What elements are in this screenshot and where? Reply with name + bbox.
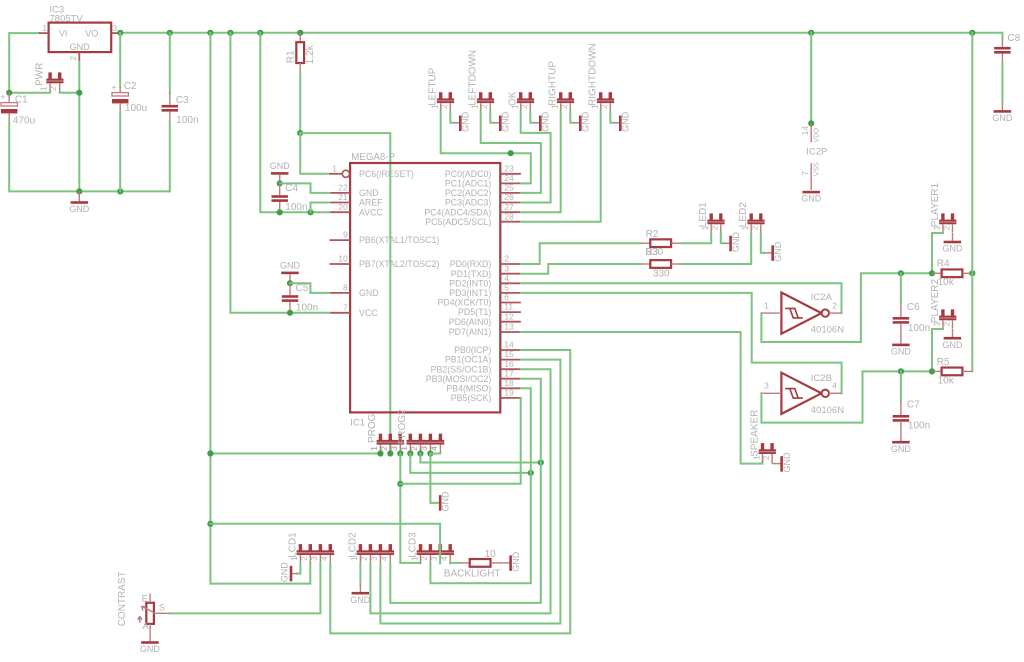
- svg-text:3: 3: [310, 556, 319, 561]
- wire VCC to IC1 pin7: [230, 33, 329, 313]
- ground symbol of PLAYER2: [952, 329, 954, 337]
- svg-text:PWR: PWR: [35, 63, 46, 86]
- svg-text:12: 12: [504, 311, 514, 321]
- svg-text:GND: GND: [69, 204, 90, 214]
- wire VCC top rail: [120, 32, 1002, 34]
- wire VCC to LCD3 pin3: [210, 524, 440, 564]
- wire AVCC net from VCC rail: [207, 30, 213, 36]
- ground symbol of PLAYER1: [952, 233, 954, 241]
- svg-text:PB4(MISO): PB4(MISO): [446, 383, 491, 393]
- wire IC3 pin2 down: [78, 62, 80, 192]
- svg-text:PC3(ADC3): PC3(ADC3): [445, 198, 492, 208]
- connector LCD1: [299, 544, 302, 551]
- svg-text:1: 1: [42, 23, 47, 33]
- svg-text:PROG: PROG: [367, 413, 378, 443]
- svg-text:4: 4: [320, 556, 329, 561]
- junction C4 top: [277, 180, 283, 186]
- pin 3 PD1(TXD) of IC1: [500, 273, 521, 275]
- svg-text:CONTRAST: CONTRAST: [117, 571, 128, 626]
- wire PD1 to R3: [521, 264, 641, 274]
- svg-text:PD4(XCK/T0): PD4(XCK/T0): [438, 298, 492, 308]
- svg-text:RIGHTUP: RIGHTUP: [548, 61, 559, 106]
- svg-text:PROG2: PROG2: [397, 409, 408, 444]
- pin 27 PC4(ADC4/SDA) of IC1: [500, 211, 521, 213]
- wire C5 top to IC1 pin8 GND: [290, 283, 330, 293]
- junction PROG2 pin2: [417, 450, 423, 456]
- svg-text:100n: 100n: [908, 421, 930, 432]
- ground symbol of C8: [994, 110, 1012, 113]
- connector LEFTDOWN: [479, 92, 482, 99]
- svg-text:470u: 470u: [13, 115, 35, 126]
- svg-text:PC4(ADC4/SDA): PC4(ADC4/SDA): [424, 207, 491, 217]
- junction PROG pin2 RESET: [387, 450, 393, 456]
- ground symbol of C6: [892, 344, 910, 347]
- pin 23 PC0(ADC0) of IC1: [500, 173, 521, 175]
- pin 19 PB5(SCK) of IC1: [500, 397, 521, 399]
- svg-text:3: 3: [390, 446, 399, 451]
- svg-text:16: 16: [504, 359, 514, 369]
- svg-text:2: 2: [942, 321, 951, 326]
- svg-text:GND: GND: [891, 347, 912, 357]
- pin 20 AVCC of IC1: [330, 211, 351, 213]
- junction C6 top: [898, 270, 904, 276]
- svg-text:RIGHTDOWN: RIGHTDOWN: [588, 43, 599, 106]
- svg-text:13: 13: [504, 322, 514, 332]
- connector SPEAKER: [761, 443, 764, 450]
- resistor R5: [933, 370, 942, 372]
- svg-text:1: 1: [370, 446, 379, 451]
- junction node RESET: [297, 130, 303, 136]
- svg-text:IC1: IC1: [350, 417, 365, 428]
- svg-text:R1: R1: [285, 50, 296, 63]
- wire PROG2 pin3 to ground: [430, 454, 439, 503]
- ground symbol of LED2: [761, 233, 765, 253]
- svg-text:+: +: [0, 92, 5, 102]
- svg-text:3: 3: [420, 446, 429, 451]
- svg-text:GND: GND: [70, 42, 91, 52]
- svg-text:3: 3: [112, 23, 117, 33]
- svg-text:GND: GND: [501, 111, 511, 132]
- pin 1 PC6(/RESET) of IC1: [330, 173, 343, 175]
- wire C4 top to IC1 pin22 GND: [280, 183, 330, 193]
- connector PWR: [48, 72, 51, 79]
- pin 2 of IC2A: [829, 312, 842, 314]
- ground symbol of C7: [892, 441, 910, 444]
- junction PROG2 pin1: [407, 450, 413, 456]
- svg-text:GND: GND: [541, 111, 551, 132]
- pin 21 AREF of IC1: [330, 202, 351, 204]
- pin 9 PB6(XTAL1/TOSC1) of IC1: [330, 239, 351, 241]
- svg-text:PC0(ADC0): PC0(ADC0): [445, 169, 492, 179]
- svg-text:AVCC: AVCC: [359, 207, 383, 217]
- svg-text:PLAYER2: PLAYER2: [930, 278, 941, 323]
- ground symbol of LCD1: [297, 563, 300, 573]
- junction C5 bottom on VCC net: [287, 310, 293, 316]
- svg-text:2: 2: [520, 104, 529, 109]
- wire RIGHTUP to PC4: [521, 111, 561, 212]
- svg-text:PD6(AIN0): PD6(AIN0): [449, 317, 492, 327]
- pin 6 PD4(XCK/T0) of IC1: [500, 302, 521, 304]
- junction C7 top: [898, 368, 904, 374]
- svg-text:C4: C4: [285, 183, 298, 194]
- svg-text:GND: GND: [581, 111, 591, 132]
- svg-text:LED2: LED2: [738, 202, 749, 227]
- pin 4 PD2(INT0) of IC1: [500, 282, 521, 284]
- junction C5 top: [287, 280, 293, 286]
- pin 2 PD0(RXD) of IC1: [500, 263, 521, 265]
- ground symbol of LED1: [721, 233, 725, 243]
- svg-text:2: 2: [751, 225, 760, 230]
- connector OK: [519, 92, 522, 99]
- svg-text:2: 2: [942, 225, 951, 230]
- ground symbol of SPEAKER: [772, 463, 781, 465]
- junction PLAYER1 / R4: [929, 270, 935, 276]
- wire LCD3 pin4 to backlight resistor: [450, 562, 460, 564]
- svg-text:PC1(ADC1): PC1(ADC1): [445, 179, 492, 189]
- svg-text:LED1: LED1: [698, 202, 709, 227]
- svg-text:PC6(/RESET): PC6(/RESET): [359, 169, 414, 179]
- ground symbol of BACKLIGHT: [509, 555, 512, 571]
- svg-text:10k: 10k: [938, 375, 955, 386]
- capacitor C1: [8, 93, 10, 103]
- svg-text:LEFTDOWN: LEFTDOWN: [468, 50, 479, 106]
- svg-text:3: 3: [504, 263, 509, 273]
- connector PLAYER1: [941, 213, 944, 220]
- capacitor C5: [289, 283, 291, 295]
- wire VCC to IC2P VDD: [810, 33, 812, 124]
- svg-text:IC2A: IC2A: [811, 292, 833, 303]
- svg-text:15: 15: [504, 349, 514, 359]
- pin 25 PC2(ADC2) of IC1: [500, 192, 521, 194]
- junction VCC rail / IC2P VDD: [808, 30, 814, 36]
- svg-text:OK: OK: [508, 91, 519, 106]
- wire PD0 to R2: [521, 243, 641, 264]
- svg-text:2: 2: [410, 446, 419, 451]
- svg-text:2: 2: [300, 556, 309, 561]
- svg-text:100n: 100n: [296, 303, 318, 314]
- wire IC2B input feedback loop: [761, 371, 932, 422]
- connector RIGHTDOWN: [599, 92, 602, 99]
- junction PROG pin1: [377, 450, 383, 456]
- svg-text:14: 14: [800, 126, 810, 136]
- junction C4 bottom on AVCC net: [277, 209, 283, 215]
- wire LCD2 pin2 to PB2: [370, 369, 550, 613]
- svg-text:18: 18: [504, 378, 514, 388]
- svg-text:GND: GND: [270, 161, 291, 171]
- wire RIGHTDOWN to PC5: [521, 111, 601, 221]
- resistor R2: [641, 242, 650, 244]
- wire R2 to LED1: [681, 233, 712, 243]
- svg-text:24: 24: [504, 173, 514, 183]
- pin 24 PC1(ADC1) of IC1: [500, 182, 521, 184]
- svg-text:GND: GND: [350, 595, 371, 605]
- svg-text:40106N: 40106N: [811, 325, 844, 336]
- svg-text:7805TV: 7805TV: [49, 14, 83, 25]
- capacitor C4: [279, 183, 281, 195]
- pin 8 GND of IC1: [330, 292, 351, 294]
- svg-text:GND: GND: [511, 551, 521, 572]
- wire VCC to PROG pin1: [210, 453, 380, 455]
- pin 18 PB4(MISO) of IC1: [500, 387, 521, 389]
- svg-text:PB7(XTAL2/TOSC2): PB7(XTAL2/TOSC2): [359, 259, 439, 269]
- wire PD3 to IC2B output: [521, 293, 842, 393]
- svg-text:A: A: [143, 621, 149, 631]
- inverter IC2B: [781, 373, 821, 414]
- ground symbol above C5: [281, 272, 299, 275]
- svg-text:GND: GND: [621, 111, 631, 132]
- junction VCC rail / R1: [297, 30, 303, 36]
- svg-text:GND: GND: [280, 261, 301, 271]
- svg-text:2: 2: [380, 446, 389, 451]
- pin 28 PC5(ADC5/SCL) of IC1: [500, 221, 521, 223]
- resistor R4: [933, 272, 942, 274]
- svg-text:20: 20: [338, 202, 348, 212]
- wire IC2A input feedback loop: [761, 273, 932, 342]
- svg-text:GND: GND: [992, 113, 1013, 123]
- svg-text:GND: GND: [140, 644, 161, 654]
- junction VCC trunk at LCD3 feed: [207, 521, 213, 527]
- svg-text:2: 2: [711, 225, 720, 230]
- ground symbol of RIGHTDOWN: [610, 111, 614, 123]
- connector LEFTUP: [439, 92, 442, 99]
- pin 4 of IC2B: [829, 392, 842, 394]
- pin 17 PB3(MOSI/OC2) of IC1: [500, 378, 521, 380]
- resistor R1: [299, 33, 301, 42]
- pin 16 PB2(SS/OC1B) of IC1: [500, 368, 521, 370]
- connector LCD2: [359, 544, 362, 551]
- svg-text:GND: GND: [942, 340, 963, 350]
- junction IC2P VDD: [808, 120, 814, 126]
- wire PLAYER1 pin1 down to R4 node: [932, 233, 943, 273]
- svg-text:PD0(RXD): PD0(RXD): [450, 259, 492, 269]
- svg-text:GND: GND: [359, 188, 379, 198]
- wire left input rail: [9, 33, 39, 93]
- svg-text:17: 17: [504, 368, 514, 378]
- svg-text:GND: GND: [731, 232, 741, 253]
- junction VCC rail / C3: [167, 30, 173, 36]
- svg-text:PD2(INT0): PD2(INT0): [449, 278, 491, 288]
- svg-text:PB2(SS/OC1B): PB2(SS/OC1B): [431, 364, 492, 374]
- svg-text:10: 10: [338, 254, 348, 264]
- svg-text:2: 2: [440, 104, 449, 109]
- pin 15 PB1(OC1A) of IC1: [500, 359, 521, 361]
- svg-text:2: 2: [832, 300, 837, 310]
- svg-text:GND: GND: [279, 562, 289, 583]
- svg-text:PC2(ADC2): PC2(ADC2): [445, 188, 492, 198]
- wire PROG pin3 / SCK net: [400, 454, 420, 564]
- connector PROG2: [409, 434, 412, 441]
- svg-text:R3: R3: [645, 247, 658, 258]
- pin 14 PB0(ICP) of IC1: [500, 349, 521, 351]
- svg-text:C1: C1: [15, 95, 28, 106]
- wire PD7 to SPEAKER: [521, 332, 763, 464]
- connector RIGHTUP: [559, 92, 562, 99]
- svg-text:GND: GND: [773, 241, 783, 262]
- wire reset to PC6: [300, 133, 329, 174]
- ground symbol of LEFTUP: [450, 111, 454, 123]
- svg-text:2: 2: [68, 56, 78, 61]
- svg-text:VDD: VDD: [813, 128, 820, 143]
- svg-text:IC2P: IC2P: [806, 146, 827, 157]
- svg-text:VCC: VCC: [359, 308, 378, 318]
- junction AREF join on AVCC net: [307, 209, 313, 215]
- svg-text:S: S: [159, 602, 165, 612]
- wire PROG2 pin3 to pin4: [430, 453, 440, 455]
- pin 11 PD5(T1) of IC1: [500, 311, 521, 313]
- wire PWR pin1 to input rail: [9, 92, 50, 93]
- ground symbol of PROG2: [439, 495, 442, 511]
- svg-text:IC2B: IC2B: [811, 373, 832, 384]
- svg-text:PD7(AIN1): PD7(AIN1): [449, 327, 492, 337]
- svg-text:2: 2: [504, 254, 509, 264]
- svg-text:100n: 100n: [908, 323, 930, 334]
- wire R1 to reset node: [299, 73, 301, 134]
- svg-text:C8: C8: [1007, 33, 1020, 44]
- pin 7 VCC of IC1: [330, 312, 351, 314]
- svg-text:1: 1: [400, 446, 409, 451]
- svg-text:VO: VO: [85, 28, 98, 38]
- wire LCD3 pin2 to PB4 MISO: [430, 388, 530, 583]
- junction R4 right on VCC drop: [969, 270, 975, 276]
- ground symbol of LEFTDOWN: [490, 111, 494, 123]
- wire R3 to LED2: [681, 233, 752, 264]
- svg-text:PB3(MOSI/OC2): PB3(MOSI/OC2): [426, 374, 492, 384]
- svg-text:23: 23: [504, 163, 514, 173]
- capacitor C6: [900, 273, 902, 303]
- svg-text:1: 1: [40, 86, 49, 91]
- svg-text:19: 19: [504, 388, 514, 398]
- junction MISO at PROG2 pin1 join: [528, 470, 534, 476]
- svg-text:5: 5: [504, 283, 509, 293]
- pin 22 GND of IC1: [330, 192, 351, 194]
- ground symbol of OK: [530, 111, 534, 123]
- svg-text:LCD1: LCD1: [287, 532, 298, 558]
- svg-text:330: 330: [653, 268, 670, 279]
- svg-text:21: 21: [338, 192, 348, 202]
- svg-text:C5: C5: [296, 283, 309, 294]
- junction ground net at IC3 ground symbol: [76, 188, 82, 194]
- wire PD2 to IC2A output: [521, 283, 842, 313]
- svg-text:BACKLIGHT: BACKLIGHT: [444, 569, 501, 580]
- wire PWR pin2 to ground net: [60, 92, 80, 93]
- svg-text:GND: GND: [461, 111, 471, 132]
- junction PROG2 pin3: [427, 450, 433, 456]
- svg-text:GND: GND: [942, 244, 963, 254]
- svg-text:4: 4: [430, 446, 439, 451]
- svg-text:PLAYER1: PLAYER1: [930, 182, 941, 227]
- wire LEFTDOWN to PC2: [481, 111, 541, 193]
- svg-text:GND: GND: [359, 288, 379, 298]
- pin 3 of IC2B: [761, 392, 781, 394]
- wire PROG2 pin2 to MOSI: [420, 454, 540, 463]
- capacitor C2: [119, 33, 121, 87]
- svg-text:C2: C2: [124, 81, 137, 92]
- svg-text:1,2k: 1,2k: [305, 44, 316, 64]
- svg-text:PC5(ADC5/SCL): PC5(ADC5/SCL): [425, 217, 491, 227]
- svg-text:40106N: 40106N: [811, 405, 844, 416]
- svg-text:6: 6: [504, 292, 509, 302]
- wire AREF jog: [311, 203, 330, 213]
- svg-text:9: 9: [343, 230, 348, 240]
- ground symbol main supply: [78, 191, 80, 201]
- connector PROG: [379, 434, 382, 441]
- resistor BACKLIGHT 10: [460, 562, 469, 564]
- junction ground net at C2: [117, 188, 123, 194]
- resistor R3: [641, 263, 650, 265]
- wire LCD1 pin3 to contrast wiper: [170, 563, 320, 613]
- svg-text:LCD2: LCD2: [347, 532, 358, 558]
- junction PROG pin3: [397, 450, 403, 456]
- junction on LEFTUP net: [508, 150, 514, 156]
- inverter IC2A: [781, 293, 821, 334]
- wire C3 bottom: [169, 122, 171, 191]
- wire LCD2 pin3 to PB1: [380, 360, 560, 624]
- svg-text:100n: 100n: [176, 115, 198, 126]
- wire reset to PROG pin2: [300, 133, 390, 453]
- svg-text:E: E: [142, 594, 148, 604]
- junction PLAYER2 / R5: [929, 368, 935, 374]
- junction input rail / C1: [6, 90, 12, 96]
- svg-text:GND: GND: [801, 194, 822, 204]
- wire PROG2 pin1 to MISO: [410, 454, 531, 473]
- connector LCD3: [419, 544, 422, 551]
- svg-text:4: 4: [832, 381, 837, 391]
- ground symbol of CONTRAST: [141, 641, 159, 644]
- connector LED1: [710, 213, 713, 220]
- svg-text:+: +: [111, 82, 116, 92]
- ground symbol of LCD2: [359, 563, 361, 585]
- svg-text:AREF: AREF: [359, 198, 383, 208]
- pin 12 PD6(AIN0) of IC1: [500, 321, 521, 323]
- svg-text:11: 11: [504, 302, 513, 312]
- svg-text:2: 2: [360, 556, 369, 561]
- svg-text:VI: VI: [59, 28, 68, 38]
- svg-text:GND: GND: [441, 491, 451, 512]
- voltage regulator IC3: [49, 23, 112, 52]
- capacitor C8: [1001, 33, 1003, 40]
- wire LCD2 pin4 to PB3 MOSI: [390, 379, 541, 603]
- connector PLAYER2: [941, 309, 944, 316]
- power pins IC2P: [810, 123, 812, 142]
- svg-text:4: 4: [440, 556, 449, 561]
- svg-text:100u: 100u: [125, 103, 147, 114]
- junction VCC rail / C2: [117, 30, 123, 36]
- svg-text:MEGA8-P: MEGA8-P: [351, 152, 395, 163]
- svg-text:1: 1: [764, 300, 769, 310]
- svg-text:3: 3: [370, 556, 379, 561]
- svg-text:2: 2: [49, 86, 58, 91]
- pin 10 PB7(XTAL2/TOSC2) of IC1: [330, 263, 351, 265]
- wire C2 bottom: [119, 112, 121, 191]
- svg-text:4: 4: [504, 273, 509, 283]
- wire OK to PC3: [521, 111, 551, 202]
- svg-text:7: 7: [800, 171, 810, 176]
- svg-text:PB6(XTAL1/TOSC1): PB6(XTAL1/TOSC1): [359, 235, 439, 245]
- wire VCC right drop: [969, 30, 975, 36]
- svg-text:C6: C6: [907, 302, 920, 313]
- wire PLAYER2 pin1 down to R5 node: [932, 329, 943, 371]
- ground symbol above C4: [271, 172, 289, 175]
- ground symbol of RIGHTUP: [570, 111, 574, 123]
- svg-text:10: 10: [485, 549, 497, 560]
- svg-text:GND: GND: [782, 452, 792, 473]
- wire VCC trunk x210: [210, 33, 310, 584]
- svg-text:R4: R4: [937, 259, 950, 270]
- connector LED2: [750, 213, 753, 220]
- svg-text:8: 8: [343, 283, 348, 293]
- svg-text:R5: R5: [937, 357, 950, 368]
- wire LEFTUP to PC1: [441, 111, 531, 183]
